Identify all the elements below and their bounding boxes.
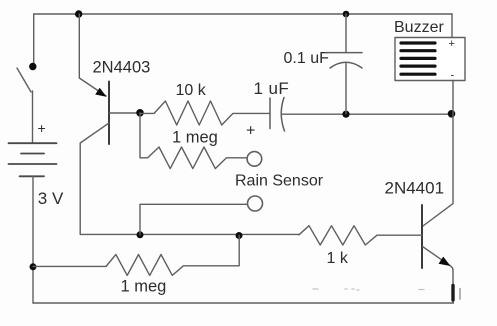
capacitor C2 1uF [270,98,285,132]
label 10 k [176,82,207,99]
label 1 meg middle [172,129,218,147]
node middle rail dot A [137,231,144,238]
switch S1 blade [17,68,31,92]
capacitor 1uF plus label [246,123,255,140]
node top rail dot J2 [343,11,350,18]
wire Q2 emitter lead [423,247,454,304]
wire left rail upper (top rail to switch) [33,14,35,63]
label 3 V [38,189,64,208]
node top rail junction J1 [75,10,82,17]
svg-text:1 meg: 1 meg [172,129,218,147]
battery B1 3V plates [9,143,57,176]
label 1 meg bottom [121,278,167,296]
resistor 1meg bottom [106,236,239,276]
wire 0.1uF to mid wire [345,64,347,114]
wire top rail to buzzer top [451,14,453,38]
resistor 1meg middle [140,113,247,169]
svg-text:Rain Sensor: Rain Sensor [235,173,324,190]
svg-text:+: + [246,123,255,140]
wire bottom rail [33,302,454,304]
node collector junction dot [448,110,456,118]
label Rain Sensor [235,173,324,190]
svg-text:-: - [451,70,455,82]
label 0.1 uF [284,50,330,67]
node 0.1uF junction dot [342,111,349,118]
svg-text:1 k: 1 k [327,250,349,267]
label Buzzer [394,19,444,36]
svg-text:+: + [449,38,455,50]
node middle rail dot B [236,232,243,239]
label 2N4403 [93,59,151,77]
wire middle rail [80,233,299,235]
wire Q1 collector lead down [80,123,109,234]
svg-text:1 uF: 1 uF [254,79,290,98]
label 1 k [327,250,349,267]
transistor Q1 2N4403 emitter arrow [95,88,106,97]
wire 1uF to collector node [282,113,452,115]
svg-text:+: + [38,120,46,136]
buzzer polarity labels [449,38,455,82]
svg-text:0.1 uF: 0.1 uF [284,50,330,67]
resistor 1k [299,226,422,245]
buzzer speaker bars [401,43,435,74]
svg-text:Buzzer: Buzzer [394,19,444,36]
wire buzzer bottom to Q2 collector [422,81,453,227]
svg-text:10 k: 10 k [176,82,207,99]
node switch contact dot [29,63,36,70]
svg-text:2N4403: 2N4403 [93,59,151,77]
wire top rail to 0.1uF [345,14,347,53]
buzzer LS1 box [395,38,465,81]
battery plus label [38,120,46,136]
wire Q1 base to node [109,112,140,114]
transistor Q2 2N4401 emitter arrow [439,257,451,266]
wire node A to probe 2 [140,204,247,235]
watermark smudge [313,286,460,301]
node base junction dot [136,109,144,117]
label 1 uF [254,79,290,98]
resistor 10k [140,101,270,125]
rain sensor probe circle 2 [248,196,263,211]
wire top rail [34,13,452,15]
svg-text:2N4401: 2N4401 [385,179,445,198]
rain sensor probe circle 1 [247,152,262,167]
label 2N4401 [385,179,445,198]
transistor Q1 2N4403 bar [108,82,110,145]
svg-text:3 V: 3 V [38,189,64,208]
capacitor C1 0.1uF [326,53,362,68]
svg-text:1 meg: 1 meg [121,278,167,296]
node bottom-left junction dot [30,263,37,270]
wire switch to battery [32,91,34,143]
transistor Q2 2N4401 bar [421,205,423,268]
wire battery to bottom-left corner [32,176,34,303]
wire bottom-left to 1meg bottom [33,265,106,267]
wire Q1 emitter lead from top rail [79,14,106,96]
